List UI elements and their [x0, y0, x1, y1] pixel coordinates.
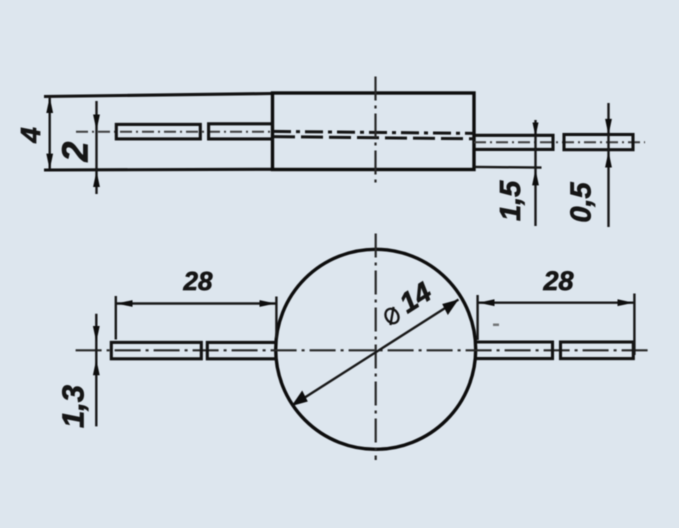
svg-text:28: 28	[542, 266, 573, 296]
svg-text:28: 28	[183, 266, 213, 296]
svg-text:0,5: 0,5	[566, 181, 598, 222]
svg-text:4: 4	[15, 127, 46, 144]
svg-text:2: 2	[55, 142, 96, 163]
svg-text:1,3: 1,3	[56, 385, 91, 428]
svg-text:1,5: 1,5	[495, 180, 527, 221]
